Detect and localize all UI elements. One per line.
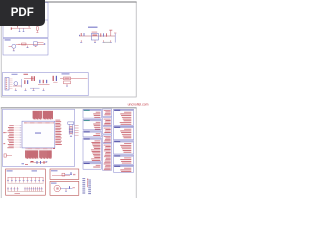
svg-text:uncnoltel.com: uncnoltel.com bbox=[128, 102, 149, 106]
